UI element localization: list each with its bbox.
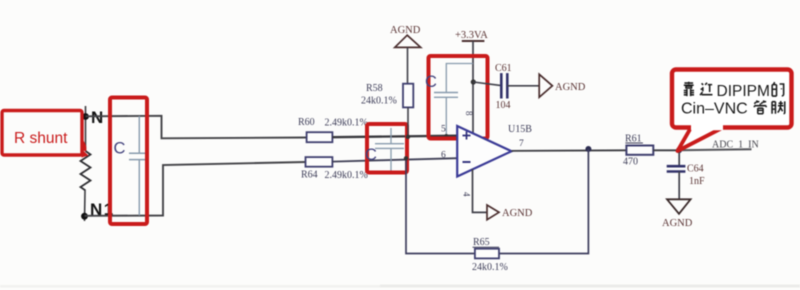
resistor R61 <box>623 134 653 168</box>
wire R61 to ADC node <box>653 147 682 153</box>
red box around middle capacitor <box>367 124 407 173</box>
resistor R shunt zigzag <box>81 151 91 191</box>
wire R60 to op-amp pin5 <box>332 136 457 138</box>
svg-text:C: C <box>425 73 437 91</box>
capacitor C annotated at +3.3VA <box>434 64 473 139</box>
svg-text:AGND: AGND <box>390 25 421 36</box>
svg-text:24k0.1%: 24k0.1% <box>361 96 397 107</box>
svg-text:8: 8 <box>464 111 474 116</box>
capacitor C annotated across input pair <box>375 128 404 172</box>
svg-text:Cin–VNC: Cin–VNC <box>681 101 748 118</box>
callout red speech bubble <box>672 70 792 152</box>
node N1 <box>81 200 115 220</box>
svg-text:1nF: 1nF <box>689 176 705 187</box>
ground AGND above R58 <box>390 25 421 47</box>
wire R64 to op-amp pin 6 <box>332 158 457 161</box>
svg-text:R shunt: R shunt <box>14 130 68 147</box>
faint photo edge band at bottom <box>0 285 800 288</box>
svg-text:C61: C61 <box>495 63 512 74</box>
wire N to R shunt <box>85 106 87 151</box>
svg-text:AGND: AGND <box>502 208 533 219</box>
callout text line2: Cin-VNC guan jiao <box>681 100 785 117</box>
red box around +3.3VA capacitor <box>429 56 488 139</box>
feedback wire pin6 to output <box>404 149 589 254</box>
capacitor C64 <box>667 150 705 199</box>
wire N to R60 <box>86 116 307 139</box>
power +3.3VA <box>455 30 488 135</box>
op-amp U15B <box>441 111 532 197</box>
resistor R65 <box>472 237 508 273</box>
svg-text:2.49k0.1%: 2.49k0.1% <box>325 118 368 129</box>
wire AGND to R58 <box>407 47 409 83</box>
svg-text:C: C <box>365 146 377 164</box>
svg-text:7: 7 <box>519 139 524 149</box>
label C blue (middle capacitor) <box>365 146 377 164</box>
wire R58 to pin5 net <box>406 107 410 139</box>
svg-text:R58: R58 <box>366 83 383 94</box>
wire op-amp pin 4 to AGND <box>473 169 488 212</box>
resistor R58 <box>361 83 413 107</box>
callout text line1: kao jin DIPIPM de <box>684 82 784 100</box>
svg-text:DIPIPM: DIPIPM <box>717 83 770 100</box>
svg-text:2.49k0.1%: 2.49k0.1% <box>325 170 368 181</box>
svg-text:6: 6 <box>441 151 446 161</box>
svg-text:AGND: AGND <box>555 82 586 93</box>
svg-text:R60: R60 <box>298 117 315 128</box>
label C blue (+3.3VA capacitor) <box>425 73 437 91</box>
capacitor C61 <box>473 63 539 111</box>
ground AGND at pin 4 <box>487 205 533 220</box>
resistor R64 <box>301 157 368 181</box>
ground AGND right of C61 <box>539 74 586 97</box>
net label ADC_1_IN with wire <box>679 140 759 151</box>
resistor R60 <box>298 117 368 142</box>
wire R shunt to N1 <box>84 191 87 222</box>
svg-text:C: C <box>114 140 126 158</box>
svg-text:+3.3VA: +3.3VA <box>455 30 488 41</box>
svg-text:24k0.1%: 24k0.1% <box>472 262 508 273</box>
label C blue (left capacitor) <box>114 140 126 158</box>
svg-text:C64: C64 <box>687 164 704 175</box>
svg-text:ADC_1_IN: ADC_1_IN <box>712 140 759 151</box>
wire op-amp output to R61 <box>512 146 628 152</box>
svg-text:U15B: U15B <box>508 124 532 135</box>
svg-text:4: 4 <box>462 192 472 197</box>
red box R shunt label with arrow <box>2 111 89 158</box>
capacitor C annotated across N-N1 <box>129 116 148 216</box>
svg-text:R65: R65 <box>473 237 490 248</box>
ground AGND below C64 <box>662 199 693 229</box>
red box around left capacitor <box>110 98 147 225</box>
node N <box>82 108 103 127</box>
wire N1 to R64 <box>85 162 306 216</box>
svg-text:R64: R64 <box>301 170 318 181</box>
svg-text:AGND: AGND <box>662 218 693 229</box>
svg-text:5: 5 <box>441 125 446 135</box>
svg-text:N: N <box>91 108 103 127</box>
svg-text:104: 104 <box>496 100 511 111</box>
svg-text:470: 470 <box>623 157 638 168</box>
